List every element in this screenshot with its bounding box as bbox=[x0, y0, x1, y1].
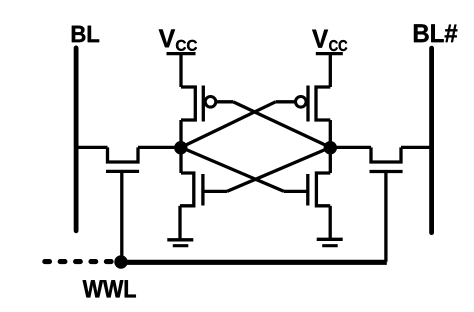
node Q bbox=[174, 141, 187, 154]
VCC supply rail left bbox=[167, 54, 196, 87]
pmos P1 bbox=[181, 86, 216, 122]
label WWL bbox=[83, 280, 136, 297]
node QB bbox=[324, 141, 337, 154]
ground right bbox=[317, 239, 343, 245]
bit line BL bbox=[74, 48, 79, 231]
VCC supply rail right bbox=[316, 54, 343, 87]
access nmos M6 bbox=[370, 147, 403, 171]
cross wire N2 gate to node Q bbox=[181, 147, 284, 191]
word line WWL dashed segment bbox=[45, 259, 112, 264]
access nmos M5 bbox=[106, 147, 139, 171]
word line WWL solid segment bbox=[121, 260, 387, 265]
wire P1 gate bbox=[216, 100, 233, 103]
cross wire P1 gate to node QB bbox=[233, 102, 330, 148]
label VCC left bbox=[159, 30, 197, 51]
wire P2 drain to node QB bbox=[329, 120, 332, 147]
cross wire P2 gate to node Q bbox=[181, 102, 276, 148]
wire P1 drain to node Q bbox=[179, 120, 182, 147]
pmos P2 bbox=[296, 86, 331, 122]
wire node Q to N1 bbox=[179, 147, 182, 173]
ground left bbox=[167, 240, 193, 246]
bit line BL# bbox=[429, 48, 434, 233]
wire M6 to bit line BL# bbox=[401, 146, 432, 149]
wire N2 source to ground bbox=[329, 206, 332, 240]
wire BL to access transistor M5 bbox=[76, 146, 108, 149]
WWL junction dot bbox=[114, 255, 127, 268]
wire node QB to N2 bbox=[329, 147, 332, 173]
wire N1 source to ground bbox=[178, 206, 181, 240]
wire M6 gate to WWL bbox=[384, 172, 387, 262]
label BL# bbox=[414, 24, 457, 42]
wire M5 gate to WWL bbox=[120, 171, 123, 262]
cross wire N1 gate to node QB bbox=[227, 147, 330, 191]
label VCC right bbox=[312, 30, 347, 51]
wire M5 to node Q bbox=[138, 146, 181, 149]
nmos N2 bbox=[284, 173, 330, 206]
wire P2 gate bbox=[276, 100, 296, 103]
wire node QB to access transistor M6 bbox=[330, 146, 371, 149]
label BL bbox=[72, 26, 99, 42]
nmos N1 bbox=[180, 173, 227, 206]
